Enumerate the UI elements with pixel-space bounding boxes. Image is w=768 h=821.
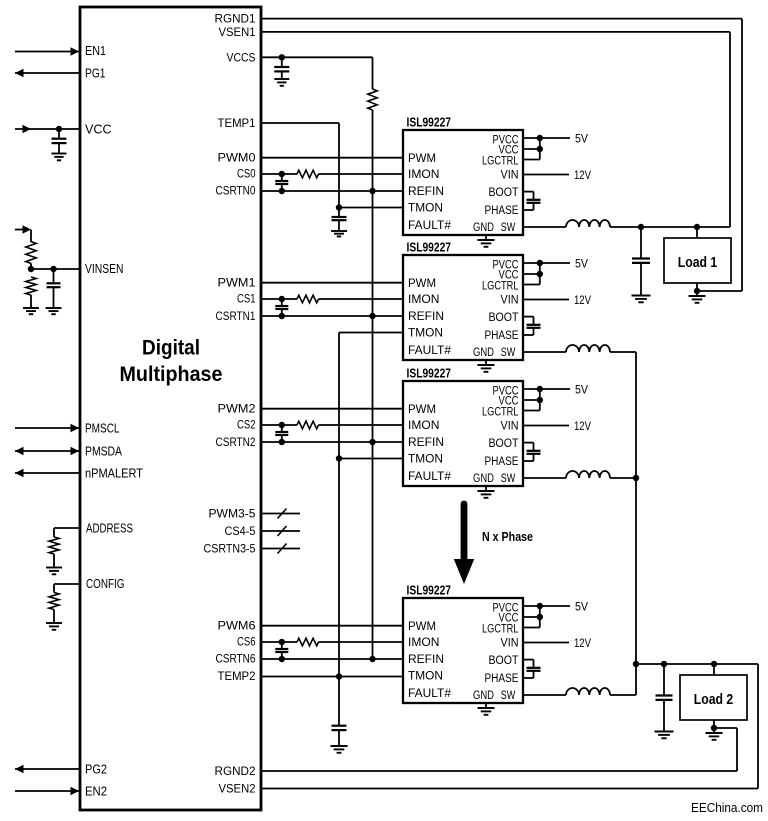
wire CS0 to sense resistor: [261, 173, 297, 175]
resistor divider upper: [26, 242, 36, 264]
wire CS2 resistor to IMON: [319, 424, 404, 426]
ground TMON1 cap: [331, 230, 347, 232]
wire PWM1 to PWM: [261, 282, 403, 284]
node CSRTN6 rail junction: [369, 656, 375, 662]
wire CSRTN6 to REFIN: [261, 658, 403, 660]
wire SW U4: [523, 477, 566, 479]
node CSRTN6 cap bottom: [279, 656, 285, 662]
svg-text:TEMP1: TEMP1: [218, 118, 256, 130]
svg-text:5V: 5V: [575, 599, 588, 613]
ground divider: [23, 307, 39, 309]
wire TMON1 to U2: [339, 207, 403, 209]
capacitor TEMP2 filter: [332, 725, 347, 727]
wire CS1 to sense resistor: [261, 298, 297, 300]
wire VSEN1 horizontal: [261, 31, 730, 33]
node CSRTN2 rail junction: [369, 439, 375, 445]
bus slash CSRTN3-5: [278, 544, 287, 554]
svg-text:PWM: PWM: [408, 278, 436, 290]
svg-text:ISL99227: ISL99227: [407, 584, 452, 598]
svg-text:FAULT#: FAULT#: [408, 471, 452, 483]
pin EN2 input arrow: [15, 790, 80, 792]
svg-text:CSRTN6: CSRTN6: [216, 653, 256, 665]
svg-text:SW: SW: [501, 690, 516, 702]
svg-text:CSRTN3-5: CSRTN3-5: [204, 543, 256, 555]
wire LGCTRL stub U5: [523, 627, 540, 629]
wire PWM3-5 stub: [261, 513, 300, 515]
wire SW1 output node: [610, 226, 730, 228]
wire VCCS down to resistor: [372, 57, 374, 89]
ground load 1: [696, 291, 698, 296]
wire VIN 12V U4: [523, 425, 569, 427]
svg-text:PMSCL: PMSCL: [85, 421, 120, 436]
capacitor CS0-CSRTN0 filter: [281, 174, 283, 181]
wire VSEN2 horizontal: [261, 788, 758, 790]
wire RGND1 to load1 return: [697, 290, 742, 292]
node PVCC junction U5: [537, 603, 543, 609]
node CS0 cap top: [279, 171, 285, 177]
wire to ground divider: [30, 295, 32, 308]
svg-text:GND: GND: [473, 690, 494, 702]
wire VIN 12V U5: [523, 642, 569, 644]
svg-text:VCC: VCC: [499, 395, 519, 407]
node CSRTN2 cap bottom: [279, 439, 285, 445]
node output1 load junction: [694, 224, 700, 230]
arrow N x Phase expansion: [461, 504, 468, 561]
wire RGND2 riser: [714, 727, 737, 729]
svg-text:VSEN2: VSEN2: [219, 783, 256, 795]
wire PVCC 5V U5: [523, 605, 570, 607]
svg-text:GND: GND: [473, 222, 494, 234]
svg-text:PWM: PWM: [408, 404, 436, 416]
svg-text:SW: SW: [501, 473, 516, 485]
wire CS6 to sense resistor: [261, 641, 297, 643]
wire CONFIG resistor to ground: [53, 610, 55, 623]
ground load 2: [713, 728, 715, 733]
node output1 cap junction: [638, 224, 644, 230]
svg-text:5V: 5V: [575, 382, 588, 396]
svg-text:IMON: IMON: [408, 294, 440, 306]
svg-text:REFIN: REFIN: [408, 654, 444, 666]
ground GND pin U2: [485, 235, 487, 240]
svg-text:BOOT: BOOT: [489, 438, 519, 450]
node CSRTN1 cap bottom: [279, 313, 285, 319]
pin VCC wire with input arrow: [15, 128, 80, 130]
svg-text:VCC: VCC: [85, 122, 112, 137]
wire VSEN2 vertical: [757, 664, 759, 789]
svg-text:PG1: PG1: [85, 66, 106, 81]
wire SW4 riser: [610, 694, 636, 696]
node divider tap: [28, 266, 34, 272]
svg-text:RGND1: RGND1: [215, 14, 256, 26]
capacitor bootstrap U4: [523, 442, 534, 444]
node CS6 cap top: [279, 639, 285, 645]
wire CSRTN1 to REFIN: [261, 315, 403, 317]
wire SW U2: [523, 226, 566, 228]
svg-text:REFIN: REFIN: [408, 437, 444, 449]
node VCC junction U3: [537, 271, 543, 277]
resistor CS2 sense: [297, 421, 319, 429]
svg-text:nPMALERT: nPMALERT: [85, 466, 143, 481]
wire TEMP2 down to cap: [338, 677, 340, 726]
svg-text:Load 1: Load 1: [678, 254, 718, 271]
wire ADDRESS resistor to ground: [53, 554, 55, 567]
svg-text:ISL99227: ISL99227: [407, 367, 452, 381]
wire VIN 12V U3: [523, 299, 569, 301]
svg-text:GND: GND: [473, 347, 494, 359]
svg-text:VIN: VIN: [501, 295, 519, 307]
svg-text:5V: 5V: [575, 256, 588, 270]
svg-text:PHASE: PHASE: [485, 205, 519, 217]
svg-text:PHASE: PHASE: [485, 673, 519, 685]
svg-text:PHASE: PHASE: [485, 330, 519, 342]
node output2 rail junction: [633, 661, 639, 667]
svg-text:PMSDA: PMSDA: [85, 444, 122, 459]
bus slash PWM3-5: [278, 509, 287, 519]
wire SW U5: [523, 694, 566, 696]
pin nPMALERT output arrow: [15, 472, 80, 474]
arrow VIN input to divider: [15, 229, 29, 231]
capacitor CS1-CSRTN1 filter: [281, 299, 283, 306]
svg-text:REFIN: REFIN: [408, 311, 444, 323]
wire VCCS horizontal: [261, 56, 373, 58]
svg-text:CS6: CS6: [237, 636, 256, 648]
power stage U3 ISL99227 body: [403, 255, 523, 360]
svg-text:TMON: TMON: [408, 671, 443, 683]
wire VCC stub U2: [523, 148, 540, 150]
svg-text:5V: 5V: [575, 131, 588, 145]
wire CS6 resistor to IMON: [319, 641, 404, 643]
svg-text:Load 2: Load 2: [694, 691, 734, 708]
wire divider top corner: [30, 230, 32, 243]
svg-text:EN2: EN2: [85, 784, 107, 799]
node load2 return junction: [711, 725, 717, 731]
svg-text:PWM1: PWM1: [218, 277, 256, 289]
wire PVCC 5V U4: [523, 388, 570, 390]
svg-text:TMON: TMON: [408, 454, 443, 466]
wire TEMP1 horizontal: [261, 122, 339, 124]
wire TMON2 to U3: [339, 332, 403, 334]
svg-text:12V: 12V: [574, 419, 591, 433]
svg-text:FAULT#: FAULT#: [408, 220, 452, 232]
svg-text:CS2: CS2: [237, 419, 256, 431]
svg-text:BOOT: BOOT: [489, 312, 519, 324]
ground CONFIG: [46, 622, 62, 624]
capacitor CS2-CSRTN2 filter: [281, 425, 283, 432]
svg-text:LGCTRL: LGCTRL: [482, 624, 519, 636]
inductor L4 phase: [566, 688, 610, 695]
wire VSEN1 vertical: [729, 32, 731, 227]
node CS1 cap top: [279, 296, 285, 302]
svg-text:VINSEN: VINSEN: [85, 261, 124, 276]
node VCCS cap junction: [279, 54, 285, 60]
svg-text:12V: 12V: [574, 636, 591, 650]
node CSRTN0 rail junction: [369, 188, 375, 194]
node output2 load junction: [711, 661, 717, 667]
node PVCC junction U4: [537, 386, 543, 392]
load 1 box: [664, 238, 731, 283]
svg-text:SW: SW: [501, 347, 516, 359]
ground output cap 2: [655, 731, 674, 733]
pin CONFIG wire: [54, 583, 80, 585]
wire CSRTN3-5 stub: [261, 548, 300, 550]
ground VCCS cap: [274, 78, 289, 80]
svg-text:TEMP2: TEMP2: [218, 671, 256, 683]
inductor L2 phase: [566, 345, 610, 352]
node TMON1 junction: [336, 204, 342, 210]
svg-text:12V: 12V: [574, 168, 591, 182]
svg-text:IMON: IMON: [408, 420, 440, 432]
wire load2 bottom: [713, 720, 715, 728]
wire ADDRESS down: [53, 528, 55, 537]
wire TEMP1 down to TMON1: [338, 123, 340, 208]
node output2 cap junction: [661, 661, 667, 667]
capacitor CS6-CSRTN6 filter: [281, 642, 283, 649]
svg-text:TMON: TMON: [408, 328, 443, 340]
ground output cap 1: [632, 295, 651, 297]
power stage U4 ISL99227 body: [403, 381, 523, 486]
wire VIN 12V U2: [523, 174, 569, 176]
svg-text:PG2: PG2: [85, 762, 107, 777]
pin PMSCL input arrow: [15, 427, 80, 429]
capacitor output 2: [663, 664, 665, 695]
power stage U5 ISL99227 body: [403, 598, 523, 703]
wire CS2 to sense resistor: [261, 424, 297, 426]
node PVCC junction U3: [537, 260, 543, 266]
pin PG1 output arrow: [15, 72, 80, 74]
svg-text:GND: GND: [473, 473, 494, 485]
inductor L1 phase: [566, 220, 610, 227]
svg-text:VIN: VIN: [501, 638, 519, 650]
resistor VCCS to CSRTN rail: [368, 89, 377, 110]
wire RGND1 vertical right edge: [741, 19, 743, 291]
ground GND pin U3: [485, 360, 487, 365]
ground GND pin U5: [485, 703, 487, 708]
svg-text:VCC: VCC: [499, 269, 519, 281]
resistor CS6 sense: [297, 638, 319, 646]
wire load1 bottom: [696, 283, 698, 291]
svg-text:FAULT#: FAULT#: [408, 688, 452, 700]
svg-text:IMON: IMON: [408, 169, 440, 181]
svg-text:Digital: Digital: [142, 336, 200, 360]
svg-text:LGCTRL: LGCTRL: [482, 156, 519, 168]
wire TMON chain vertical: [338, 333, 340, 677]
wire CSRTN0 to REFIN: [261, 190, 403, 192]
IC U1 Digital Multiphase controller body: [80, 7, 261, 810]
node TMON3 junction: [336, 455, 342, 461]
wire CS4-5 stub: [261, 530, 300, 532]
wire CONFIG down: [53, 584, 55, 593]
wire CS0 resistor to IMON: [319, 173, 404, 175]
svg-text:LGCTRL: LGCTRL: [482, 407, 519, 419]
svg-text:PWM0: PWM0: [218, 152, 256, 164]
node load1 return junction: [694, 288, 700, 294]
wire VCC stub U5: [523, 616, 540, 618]
node CSRTN0 cap bottom: [279, 188, 285, 194]
svg-text:EEChina.com: EEChina.com: [691, 800, 763, 815]
pin PG2 output arrow: [15, 768, 80, 770]
node CS2 cap top: [279, 422, 285, 428]
capacitor VCCS decoupling: [281, 57, 283, 67]
resistor CS0 sense: [297, 170, 319, 178]
svg-text:PWM2: PWM2: [218, 403, 256, 415]
pin VINSEN wire: [31, 268, 80, 270]
wire LGCTRL stub U4: [523, 410, 540, 412]
capacitor VINSEN filter: [53, 269, 55, 283]
svg-text:PWM: PWM: [408, 621, 436, 633]
wire SW2 to rail: [610, 351, 636, 353]
wire CS1 resistor to IMON: [319, 298, 404, 300]
capacitor TMON1 filter: [338, 208, 340, 217]
wire PWM2 to PWM: [261, 408, 403, 410]
svg-text:EN1: EN1: [85, 43, 106, 58]
svg-text:CONFIG: CONFIG: [86, 576, 125, 591]
svg-text:Multiphase: Multiphase: [120, 362, 223, 386]
svg-text:12V: 12V: [574, 293, 591, 307]
wire divider to VINSEN: [30, 263, 32, 269]
svg-text:FAULT#: FAULT#: [408, 345, 452, 357]
svg-text:CS4-5: CS4-5: [225, 526, 256, 538]
svg-text:CSRTN0: CSRTN0: [216, 186, 256, 198]
svg-text:BOOT: BOOT: [489, 187, 519, 199]
wire rail SW3 to output2: [635, 478, 637, 664]
wire CSRTN2 to REFIN: [261, 441, 403, 443]
node VCC junction U4: [537, 397, 543, 403]
node SW3 rail junction: [633, 475, 639, 481]
wire PVCC 5V U2: [523, 137, 570, 139]
wire CSRTN rail vertical: [372, 110, 374, 658]
wire SW3 to rail: [610, 477, 636, 479]
svg-text:PHASE: PHASE: [485, 456, 519, 468]
svg-text:IMON: IMON: [408, 637, 440, 649]
svg-text:CSRTN1: CSRTN1: [216, 311, 256, 323]
node VCC junction: [56, 126, 62, 132]
wire TMON4 to U5: [339, 676, 403, 678]
ground TEMP2 cap: [331, 745, 348, 747]
node VINSEN cap junction: [50, 266, 56, 272]
resistor ADDRESS strap: [49, 537, 59, 554]
resistor divider lower: [26, 277, 36, 295]
svg-text:ISL99227: ISL99227: [407, 241, 452, 255]
svg-text:VCC: VCC: [499, 612, 519, 624]
ground VCC cap: [52, 153, 67, 155]
wire TMON3 to U4: [339, 458, 403, 460]
svg-text:N x Phase: N x Phase: [482, 529, 533, 544]
power stage U2 ISL99227 body: [403, 130, 523, 235]
svg-text:VCC: VCC: [499, 144, 519, 156]
bus slash CS4-5: [278, 526, 287, 536]
wire PWM0 to PWM: [261, 157, 403, 159]
svg-text:ISL99227: ISL99227: [407, 116, 452, 130]
svg-text:VCCS: VCCS: [227, 52, 256, 64]
wire load2 top: [713, 664, 715, 675]
svg-text:PWM6: PWM6: [218, 620, 256, 632]
svg-text:TMON: TMON: [408, 203, 443, 215]
capacitor bootstrap U3: [523, 316, 534, 318]
wire load1 top: [696, 227, 698, 238]
node TEMP2 junction: [336, 673, 342, 679]
svg-text:ADDRESS: ADDRESS: [86, 520, 133, 535]
pin PMSDA bidirectional arrow: [15, 450, 80, 452]
svg-text:CS1: CS1: [237, 293, 256, 305]
wire LGCTRL stub U2: [523, 159, 540, 161]
svg-text:CSRTN2: CSRTN2: [216, 437, 256, 449]
svg-text:VIN: VIN: [501, 170, 519, 182]
wire RGND2 horizontal: [261, 770, 737, 772]
capacitor bootstrap U2: [523, 191, 534, 193]
wire SW U3: [523, 351, 566, 353]
ground GND pin U4: [485, 486, 487, 491]
node VCC junction U2: [537, 146, 543, 152]
svg-text:VIN: VIN: [501, 421, 519, 433]
svg-text:PWM3-5: PWM3-5: [209, 509, 256, 521]
wire TEMP2 horizontal: [261, 676, 339, 678]
resistor CS1 sense: [297, 295, 319, 303]
svg-text:LGCTRL: LGCTRL: [482, 281, 519, 293]
pin ADDRESS wire: [54, 527, 80, 529]
capacitor VCC decoupling: [58, 129, 60, 139]
svg-text:SW: SW: [501, 222, 516, 234]
resistor CONFIG strap: [49, 593, 59, 610]
capacitor output 1: [640, 227, 642, 258]
svg-text:VSEN1: VSEN1: [219, 27, 256, 39]
wire RGND1 horizontal: [261, 18, 742, 20]
wire output2 node: [636, 663, 758, 665]
pin EN1 input arrow: [15, 51, 80, 53]
svg-text:PWM: PWM: [408, 153, 436, 165]
node CSRTN1 rail junction: [369, 313, 375, 319]
node VCC junction U5: [537, 614, 543, 620]
ground VINSEN cap: [46, 307, 62, 309]
load 2 box: [680, 675, 747, 720]
svg-text:RGND2: RGND2: [215, 766, 256, 778]
node PVCC junction U2: [537, 135, 543, 141]
svg-text:REFIN: REFIN: [408, 186, 444, 198]
wire VCC stub U3: [523, 273, 540, 275]
inductor L3 phase: [566, 471, 610, 478]
wire PVCC 5V U3: [523, 262, 570, 264]
wire LGCTRL stub U3: [523, 284, 540, 286]
capacitor bootstrap U5: [523, 659, 534, 661]
wire PWM6 to PWM: [261, 625, 403, 627]
svg-text:BOOT: BOOT: [489, 655, 519, 667]
svg-text:CS0: CS0: [237, 168, 256, 180]
ground ADDRESS: [46, 567, 62, 569]
wire VCC stub U4: [523, 399, 540, 401]
